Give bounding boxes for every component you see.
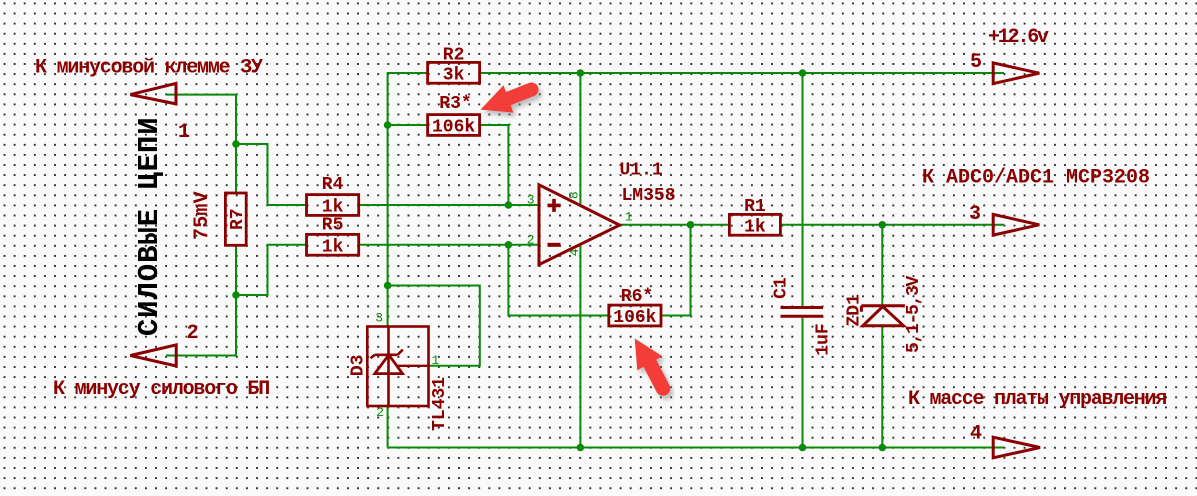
connector pin 4 arrow xyxy=(993,437,1040,458)
svg-text:5,1-5,3V: 5,1-5,3V xyxy=(904,275,924,353)
TL431 D3 box xyxy=(367,327,428,407)
junction node B xyxy=(232,291,240,299)
svg-text:R1: R1 xyxy=(744,197,766,217)
op-amp - sign xyxy=(548,243,561,247)
svg-text:5: 5 xyxy=(970,51,982,74)
wire node C to R3 left xyxy=(388,124,428,126)
junction ground / C1 xyxy=(799,444,807,452)
wire R3 right to op-amp + xyxy=(480,125,509,205)
connector pin 1 arrow xyxy=(130,83,176,104)
wire output node to ZD1 cathode xyxy=(881,225,883,306)
wire R1 right to conn3 xyxy=(780,224,1004,226)
red annotation arrow pointing at R6 xyxy=(635,339,663,389)
connector pin 5 arrow xyxy=(993,63,1039,84)
op-amp U1.1 LM358 xyxy=(539,185,620,265)
junction output / ZD1 xyxy=(879,221,887,229)
wire R2 left down to D3 cathode xyxy=(388,73,428,327)
resistor R3 xyxy=(428,115,480,136)
wire +12.6v top rail xyxy=(480,72,1004,74)
svg-text:LM358: LM358 xyxy=(622,186,676,206)
wire C1 bottom to ground rail xyxy=(802,318,804,448)
svg-text:R2: R2 xyxy=(443,46,465,66)
svg-text:75mV: 75mV xyxy=(191,191,214,240)
junction op-amp - input xyxy=(505,241,513,249)
wire conn1 to node A xyxy=(166,95,236,144)
connector pin 2 arrow xyxy=(130,345,176,366)
junction output / R6 feedback xyxy=(687,221,695,229)
TL431 D3 ref pin line xyxy=(397,365,429,367)
wire rail to C1 top xyxy=(802,73,804,306)
wire op-amp output to R1 left xyxy=(620,224,730,226)
svg-text:СИЛОВЫЕ ЦЕПИ: СИЛОВЫЕ ЦЕПИ xyxy=(133,116,166,336)
svg-text:D3: D3 xyxy=(348,354,368,376)
svg-text:4: 4 xyxy=(567,248,582,256)
resistor R7 xyxy=(225,193,246,245)
junction node A xyxy=(232,140,240,148)
junction node C at R3 left xyxy=(384,121,392,129)
svg-text:3: 3 xyxy=(969,203,981,226)
resistor R4 xyxy=(307,195,359,216)
svg-text:R7: R7 xyxy=(228,208,248,230)
resistor R1 xyxy=(729,214,780,235)
svg-text:106k: 106k xyxy=(432,118,475,138)
svg-text:1: 1 xyxy=(432,353,440,368)
svg-text:R4: R4 xyxy=(322,175,344,195)
junction rail / op-amp V+ xyxy=(577,69,585,77)
junction ground / op-amp V- xyxy=(577,444,585,452)
junction ground / ZD1 xyxy=(879,444,887,452)
junction rail / C1 xyxy=(799,69,807,77)
svg-text:8: 8 xyxy=(567,191,582,199)
svg-text:3: 3 xyxy=(375,310,383,325)
svg-text:2: 2 xyxy=(376,405,384,420)
resistor R5 xyxy=(307,234,359,255)
junction op-amp + input xyxy=(505,201,513,209)
svg-text:R6*: R6* xyxy=(621,287,653,307)
svg-text:К ADC0/ADC1 MCP3208: К ADC0/ADC1 MCP3208 xyxy=(922,167,1150,190)
svg-text:К минусовой клемме ЗУ: К минусовой клемме ЗУ xyxy=(35,57,263,80)
op-amp + sign xyxy=(548,199,561,212)
red annotation arrow pointing at R3 xyxy=(481,85,532,112)
svg-text:U1.1: U1.1 xyxy=(620,160,663,180)
svg-text:1k: 1k xyxy=(322,237,344,257)
wire node B to R5 left xyxy=(236,245,307,295)
svg-text:2: 2 xyxy=(187,322,199,345)
wire node B to conn2 xyxy=(166,295,236,356)
connector pin 3 arrow xyxy=(993,214,1039,235)
svg-text:R3*: R3* xyxy=(439,94,471,114)
svg-text:R5: R5 xyxy=(322,215,344,235)
svg-text:TL431: TL431 xyxy=(430,377,450,431)
TL431 D3 internal symbol xyxy=(371,327,403,407)
resistor R6 xyxy=(609,305,661,326)
svg-text:3: 3 xyxy=(527,192,535,207)
wire ZD1 anode to ground rail xyxy=(881,326,883,448)
svg-text:1: 1 xyxy=(178,121,190,144)
svg-text:106k: 106k xyxy=(613,308,656,328)
svg-text:1uF: 1uF xyxy=(814,323,834,355)
svg-text:ZD1: ZD1 xyxy=(844,294,864,327)
wire D3 anode to ground rail xyxy=(387,406,389,448)
wire R5 right to op-amp - xyxy=(359,244,539,246)
junction node D at D3 xyxy=(384,282,392,290)
svg-text:К массе платы управления: К массе платы управления xyxy=(908,388,1166,411)
svg-text:2: 2 xyxy=(527,232,535,247)
wire R6 right to output node xyxy=(661,225,691,316)
resistor R2 xyxy=(428,62,480,83)
svg-text:C1: C1 xyxy=(772,277,792,299)
svg-text:3k: 3k xyxy=(443,66,465,86)
svg-text:4: 4 xyxy=(970,423,982,446)
svg-text:1k: 1k xyxy=(744,217,766,237)
zener diode ZD1 xyxy=(861,306,905,312)
svg-text:1: 1 xyxy=(625,210,633,225)
wire R7 bottom to node B xyxy=(235,245,237,295)
wire R4 right to op-amp + xyxy=(359,204,539,206)
wire D3 ref to node D xyxy=(388,286,480,366)
wire node A to R4 left xyxy=(236,144,307,205)
wire ground bottom rail xyxy=(388,447,1004,449)
capacitor C1 plates xyxy=(781,308,824,317)
wire rail to op-amp pin 8 xyxy=(579,73,581,206)
wire op-amp - to R6 left xyxy=(508,245,608,316)
svg-text:+12.6v: +12.6v xyxy=(988,26,1049,49)
svg-text:К минусу силового БП: К минусу силового БП xyxy=(53,378,269,401)
wire node A to R7 top xyxy=(235,144,237,193)
wire op-amp pin 4 to ground rail xyxy=(579,245,581,448)
